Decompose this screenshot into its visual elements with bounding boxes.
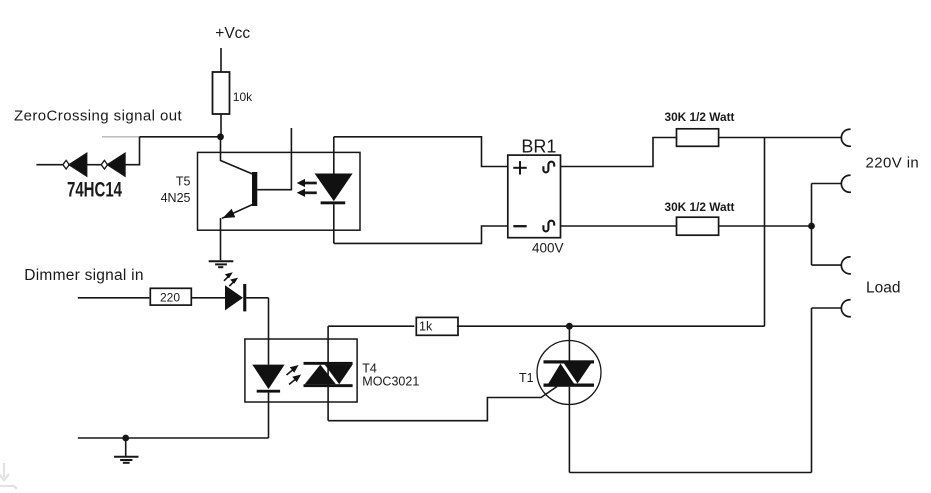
transistor Q1 emitter wire [222,205,253,219]
triac T1 left triangle [548,364,574,384]
diode D1 LED anode lead [333,137,335,174]
inverter U1A bubble [63,160,69,169]
wire base pin stub [257,128,291,190]
wire inverter input [36,164,63,166]
ground G1 [209,260,234,262]
triac T1 cathode lead [568,387,570,473]
wire MOC light arrow 2 [289,378,298,385]
node A label Vcc lead wire [220,48,222,72]
diode D2 LED triangle [252,365,284,390]
svg-text:Load: Load [866,280,900,297]
triac T1 circle [537,341,601,405]
triac U3 bottom bar [304,384,353,387]
resistor R2 30K box [677,129,719,147]
svg-text:+Vcc: +Vcc [215,25,250,42]
connector P3 arc [841,257,851,274]
wire light arrow 1 [303,182,317,185]
svg-text:4N25: 4N25 [161,191,191,205]
connector P4 arc [841,300,851,317]
wire bottom ground rail [78,437,269,439]
wire 1k row left [328,325,414,327]
ground G2 [114,456,139,458]
triac T1 right triangle [564,364,591,384]
wire LED loop bottom to BR1 [334,226,508,243]
svg-text:BR1: BR1 [521,136,556,156]
wire between inverters [87,164,102,166]
diode D1 LED cathode bar [321,201,346,204]
connector P1 arc [841,129,851,146]
wire connector 4 [812,307,842,309]
resistor R5 220 box [150,288,191,305]
wire inverter to node riser [125,137,140,165]
wire sense riser [764,138,766,327]
wire faint stub [102,136,140,138]
triac U3 top bar [304,362,353,365]
resistor R3 30K box [677,217,719,235]
wire 220 to diode [191,297,225,299]
triac T1 anode lead [568,326,570,360]
inverter U1B bubble [101,160,107,169]
wire LED loop top to BR1 [334,137,508,167]
svg-text:Dimmer signal in: Dimmer signal in [24,267,143,284]
wire zero-cross node row [140,136,222,138]
svg-text:30K 1/2 Watt: 30K 1/2 Watt [665,110,735,124]
inverter U1B triangle [108,154,125,176]
diode D1 LED triangle [315,174,353,202]
watermark download arrow [0,463,17,489]
wire resistor to node [220,114,222,137]
op-amp U2 box 4N25 [198,152,361,230]
triac T1 bottom bar [544,384,595,387]
wire diode arrow 2 [229,281,235,287]
bridge rectifier BR1 box [508,155,561,238]
triac U3 right triangle [325,365,353,385]
wire vertical conn2 to conn3 [811,184,813,266]
node junction dot [217,133,224,140]
wire dimmer input [78,297,150,299]
diode D2 LED lead top [268,298,270,365]
svg-text:T5: T5 [176,175,191,189]
svg-text:74HC14: 74HC14 [67,177,122,201]
svg-text:T1: T1 [519,371,534,385]
wire connector 2 [812,183,842,185]
diode D3 cathode bar [243,284,246,311]
triac T1 top bar [544,360,595,363]
diode D2 LED cathode bar [257,390,280,393]
resistor R4 1k box [416,317,458,335]
resistor R 10k [213,72,230,114]
svg-text:ZeroCrossing signal out: ZeroCrossing signal out [14,107,182,124]
wire BR1 minus to resistor row [561,225,677,227]
svg-text:220V in: 220V in [866,155,920,172]
svg-text:1k: 1k [419,319,433,333]
wire 1k row right [457,325,765,327]
wire load return bottom [569,472,811,474]
svg-text:220: 220 [160,291,180,305]
svg-text:MOC3021: MOC3021 [362,374,419,388]
wire BR1 plus to resistor row [561,138,677,167]
wire MOC light arrow 1 [287,368,296,375]
node junction dot right [808,223,815,230]
op-amp U3 box MOC3021 [245,339,357,402]
svg-text:400V: 400V [532,241,564,256]
node junction dot T1 gate row [566,323,573,330]
node junction dot ground [122,435,129,442]
triac U3 left triangle [305,365,336,385]
svg-text:10k: 10k [233,90,253,104]
wire conn4 down to load return [811,308,813,473]
transistor Q1 base bar [252,172,257,206]
triac T1 gate wire [328,387,557,421]
wire diode arrow 1 [224,275,230,281]
BR1 ac squiggle bottom [543,221,554,232]
BR1 minus symbol [513,225,526,227]
wire connector 3 [812,264,842,266]
connector P2 arc [841,175,851,192]
wire light arrow 2 [303,191,317,194]
wire emitter to ground [220,218,222,260]
BR1 ac squiggle top [543,162,554,173]
diode D2 LED cathode lead [268,393,270,438]
wire resistor to connector 1 [719,137,841,139]
wire MOC outer left edge [327,326,329,421]
transistor Q1 collector wire [221,137,253,174]
transistor Q1 emitter arrowhead [223,209,236,219]
svg-text:30K 1/2 Watt: 30K 1/2 Watt [665,200,735,214]
diode D3 triangle [225,285,243,310]
BR1 plus symbol [513,167,526,169]
wire ground stub [125,438,127,456]
wire diode to MOC [246,297,268,299]
diode D1 LED cathode lead [333,204,335,243]
wire resistor to junction [719,225,812,227]
inverter U1A triangle [69,154,86,176]
